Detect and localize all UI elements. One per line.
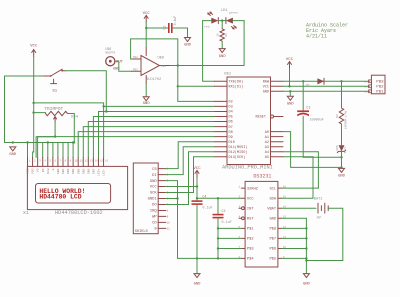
svg-text:R/W: R/W (46, 168, 50, 174)
svg-text:GND1: GND1 (148, 198, 158, 202)
svg-text:VCC: VCC (30, 45, 38, 49)
svg-text:1k: 1k (216, 33, 220, 37)
svg-text:DB5: DB5 (82, 168, 85, 174)
svg-text:PB2: PB2 (376, 86, 384, 90)
svg-text:VSS: VSS (27, 168, 30, 174)
svg-text:U$5: U$5 (335, 145, 339, 150)
svg-text:D13(SCK): D13(SCK) (229, 155, 246, 160)
svg-text:PB3: PB3 (376, 81, 384, 85)
svg-text:D8: D8 (229, 131, 233, 135)
svg-text:X1: X1 (23, 210, 29, 216)
svg-text:green: green (229, 11, 238, 14)
svg-text:D2: D2 (229, 101, 233, 105)
svg-text:P$6: P$6 (161, 64, 166, 68)
svg-text:D6: D6 (229, 121, 233, 125)
svg-text:P$2: P$2 (364, 85, 369, 88)
svg-text:A3: A3 (265, 146, 269, 150)
svg-text:HD44780LCD-1602: HD44780LCD-1602 (55, 210, 103, 216)
svg-text:GND: GND (194, 282, 202, 286)
svg-text:LED+: LED+ (98, 168, 101, 175)
svg-text:SHIELD: SHIELD (135, 230, 148, 234)
svg-text:R1: R1 (225, 33, 228, 37)
svg-text:4/21/11: 4/21/11 (306, 34, 327, 40)
svg-text:GND: GND (143, 102, 151, 106)
svg-text:A5: A5 (265, 156, 269, 160)
svg-text:D10: D10 (229, 141, 235, 145)
svg-text:P$1: P$1 (247, 227, 254, 232)
svg-text:HD44780 LCD: HD44780 LCD (39, 194, 81, 201)
svg-text:PB1: PB1 (376, 91, 384, 95)
svg-text:DB3: DB3 (72, 168, 75, 174)
svg-text:D3: D3 (229, 106, 233, 110)
svg-text:C1: C1 (163, 26, 167, 30)
svg-text:DS3231: DS3231 (253, 173, 271, 179)
svg-text:D4: D4 (229, 111, 233, 115)
svg-text:TRIMPOT: TRIMPOT (44, 106, 63, 112)
svg-text:SCL: SCL (269, 187, 276, 191)
svg-text:D5: D5 (229, 116, 233, 120)
svg-text:P$1: P$1 (364, 90, 369, 93)
svg-text:R2: R2 (336, 114, 339, 118)
svg-text:GND: GND (263, 91, 269, 95)
svg-text:P$6: P$6 (269, 247, 276, 252)
svg-text:32KHZ: 32KHZ (247, 187, 259, 191)
svg-text:DB7: DB7 (93, 168, 96, 174)
svg-text:U$9: U$9 (158, 55, 164, 60)
svg-text:BNCPTH: BNCPTH (106, 52, 116, 55)
svg-text:WP: WP (152, 216, 157, 220)
svg-text:P$8: P$8 (269, 227, 276, 232)
svg-text:VBAT: VBAT (267, 207, 277, 211)
svg-text:0.1uF: 0.1uF (202, 207, 212, 211)
svg-text:GND: GND (338, 175, 346, 179)
svg-text:C2: C2 (222, 210, 226, 214)
svg-text:LED-: LED- (103, 168, 106, 175)
svg-text:IRQ: IRQ (150, 210, 158, 214)
svg-text:P$3: P$3 (364, 80, 369, 83)
svg-text:RS: RS (42, 168, 45, 172)
svg-text:GND: GND (150, 180, 158, 184)
svg-text:D7: D7 (229, 126, 233, 130)
svg-text:D1: D1 (306, 84, 310, 88)
svg-text:DB1: DB1 (62, 168, 65, 174)
svg-text:D12(MISO): D12(MISO) (229, 150, 248, 155)
svg-text:P$7: P$7 (269, 237, 276, 242)
svg-text:BAT1: BAT1 (314, 197, 323, 201)
svg-text:TX0(D0): TX0(D0) (229, 80, 244, 85)
svg-text:E: E (52, 168, 55, 170)
svg-text:D11(MOSI): D11(MOSI) (229, 145, 248, 150)
svg-text:GND: GND (219, 55, 227, 59)
svg-text:ARDUINO_PRO_MINI: ARDUINO_PRO_MINI (222, 165, 273, 171)
svg-text:ALD1702: ALD1702 (146, 78, 161, 82)
svg-text:U$1: U$1 (224, 71, 232, 76)
svg-text:SCK: SCK (150, 192, 158, 196)
svg-text:VO: VO (37, 168, 40, 172)
svg-text:GND: GND (303, 282, 311, 286)
svg-text:0.1uF: 0.1uF (222, 221, 232, 225)
svg-text:0.1uF: 0.1uF (173, 16, 177, 26)
svg-text:GND: GND (184, 44, 192, 48)
svg-text:A4: A4 (265, 151, 269, 155)
svg-text:RESET: RESET (255, 116, 266, 120)
svg-text:DB6: DB6 (87, 168, 90, 174)
svg-text:P$3: P$3 (247, 247, 254, 252)
svg-text:U$6: U$6 (106, 47, 112, 51)
svg-text:10KOHM-1/4W: 10KOHM-1/4W (343, 110, 347, 129)
svg-text:DO: DO (152, 204, 157, 208)
svg-text:DB0: DB0 (57, 168, 60, 174)
svg-text:RX1(D1): RX1(D1) (229, 85, 244, 90)
svg-text:SDA: SDA (269, 198, 276, 202)
svg-text:D9: D9 (229, 136, 233, 140)
svg-text:GND: GND (9, 153, 17, 157)
svg-text:P$4: P$4 (247, 257, 254, 262)
svg-text:RST: RST (247, 218, 254, 222)
svg-text:P$5: P$5 (269, 257, 276, 262)
svg-text:CS: CS (152, 168, 157, 172)
svg-text:A2: A2 (265, 141, 269, 145)
svg-text:5.1V: 5.1V (344, 146, 347, 153)
svg-text:INT: INT (247, 207, 254, 211)
svg-text:LD1: LD1 (221, 9, 229, 13)
svg-text:P$2: P$2 (133, 55, 138, 59)
svg-text:DB2: DB2 (67, 168, 70, 174)
svg-text:S1: S1 (52, 90, 57, 94)
svg-text:VCC: VCC (247, 198, 254, 202)
svg-text:red: red (204, 24, 210, 28)
svg-text:DB4: DB4 (77, 168, 80, 174)
svg-text:GND: GND (287, 103, 295, 107)
svg-text:C4: C4 (202, 196, 206, 200)
svg-text:P$3: P$3 (133, 67, 138, 71)
svg-text:RAW: RAW (263, 81, 270, 85)
svg-text:CD: CD (152, 222, 157, 226)
svg-text:10000uF: 10000uF (310, 119, 324, 123)
svg-text:A0: A0 (265, 131, 269, 135)
svg-text:C3: C3 (306, 106, 310, 110)
svg-text:GND: GND (269, 218, 276, 222)
svg-text:VCC: VCC (150, 186, 158, 190)
svg-text:VDD: VDD (32, 168, 35, 174)
svg-text:DI: DI (152, 174, 157, 178)
svg-text:P$2: P$2 (247, 237, 254, 242)
svg-text:VCC: VCC (263, 86, 269, 90)
svg-text:A1: A1 (265, 136, 269, 140)
